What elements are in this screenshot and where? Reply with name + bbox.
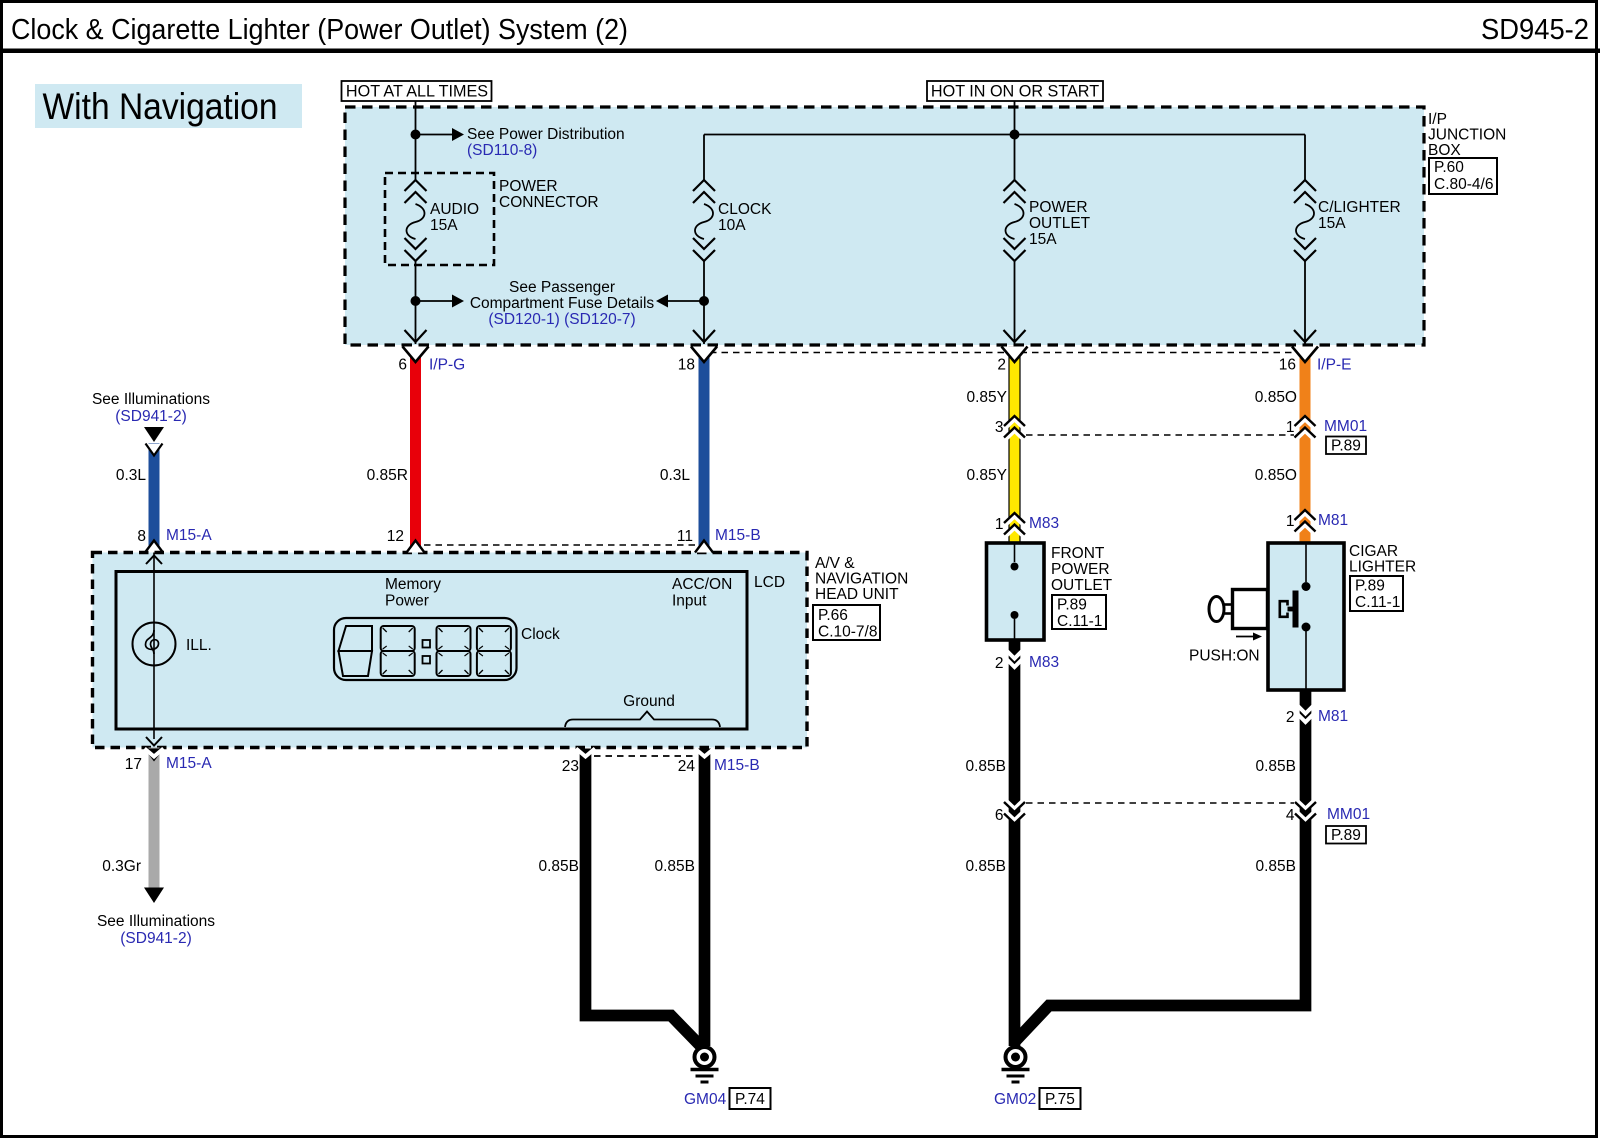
svg-text:3: 3	[995, 419, 1004, 436]
connector link dashes MM01 lower	[1026, 802, 1294, 804]
svg-text:P.66: P.66	[818, 607, 848, 624]
arrow: fuse details (right)	[416, 295, 465, 308]
svg-text:Input: Input	[672, 593, 707, 610]
label: ACC/ON Input	[672, 576, 732, 610]
svg-text:BOX: BOX	[1428, 142, 1461, 159]
svg-text:(SD941-2): (SD941-2)	[115, 408, 187, 425]
connector pin 18	[678, 330, 717, 374]
arrow: from illuminations	[144, 427, 164, 442]
label: 0.85B (cigar upper)	[1255, 758, 1296, 775]
connector pin 24 M15-B	[678, 749, 760, 776]
svg-text:0.85B: 0.85B	[965, 858, 1006, 875]
label: Ground (with brace)	[565, 693, 720, 727]
svg-text:ILL.: ILL.	[186, 637, 212, 654]
label: Clock	[521, 626, 560, 643]
page code SD945-2	[1481, 14, 1589, 46]
label: Memory Power	[385, 576, 441, 610]
connector pin 12 entry notch	[387, 528, 425, 553]
svg-text:Memory: Memory	[385, 576, 441, 593]
svg-text:11: 11	[677, 528, 693, 545]
wire: audio fuse output	[415, 261, 417, 344]
label: CIGAR LIGHTER	[1349, 543, 1416, 576]
svg-text:0.3L: 0.3L	[660, 467, 691, 484]
connector pin 6 (I/P-G)	[398, 330, 465, 374]
wire 0.3Gr (illumination out)	[149, 748, 160, 888]
svg-text:12: 12	[387, 528, 404, 545]
svg-text:HOT IN ON OR START: HOT IN ON OR START	[931, 83, 1099, 101]
wire: hot-in-on-or-start feed	[1014, 101, 1016, 135]
svg-text:0.85Y: 0.85Y	[966, 389, 1007, 406]
svg-text:4: 4	[1286, 807, 1295, 824]
svg-text:A/V &: A/V &	[815, 555, 855, 572]
component: FRONT POWER OUTLET	[987, 543, 1045, 640]
svg-text:1: 1	[1286, 419, 1295, 436]
svg-text:GM02: GM02	[994, 1091, 1036, 1108]
label: 0.85B (outlet upper)	[965, 758, 1006, 775]
svg-text:(SD120-1) (SD120-7): (SD120-1) (SD120-7)	[488, 311, 635, 328]
svg-text:AUDIO: AUDIO	[430, 201, 479, 218]
connector link dashes MM01 upper	[1026, 434, 1294, 436]
svg-text:0.85B: 0.85B	[654, 858, 695, 875]
svg-text:FRONT: FRONT	[1051, 545, 1105, 562]
connector link dashes pins 23-24	[594, 755, 696, 757]
svg-text:Clock: Clock	[521, 626, 560, 643]
wire: c-lighter fuse output	[1304, 261, 1306, 344]
ref box P.75	[1040, 1088, 1081, 1109]
label: With Navigation	[35, 84, 302, 128]
svg-text:18: 18	[678, 357, 695, 374]
svg-text:GM04: GM04	[684, 1091, 727, 1108]
ground GM02	[1002, 1047, 1030, 1082]
svg-text:C.80-4/6: C.80-4/6	[1434, 176, 1493, 193]
clock LCD display (88:88)	[334, 618, 517, 680]
cigar lighter plug symbol	[1209, 590, 1299, 629]
svg-text:M15-A: M15-A	[166, 755, 212, 772]
wire 0.85Y (power outlet)	[966, 347, 1020, 543]
I/P junction box (dashed blue box)	[345, 107, 1424, 345]
label: HOT IN ON OR START	[927, 81, 1103, 101]
label: 0.85B (pin 24 wire)	[654, 858, 695, 875]
component: CIGAR LIGHTER	[1268, 543, 1344, 690]
svg-text:M15-B: M15-B	[715, 527, 761, 544]
svg-text:POWER: POWER	[499, 178, 558, 195]
note: See Power Distribution (SD110-8)	[467, 126, 625, 159]
connector pin 2 M81	[1286, 704, 1348, 726]
svg-text:(SD941-2): (SD941-2)	[120, 930, 192, 947]
svg-text:P.60: P.60	[1434, 159, 1464, 176]
wire 0.3L (illumination to head unit)	[116, 443, 163, 553]
svg-text:P.75: P.75	[1045, 1091, 1075, 1108]
arrow: to illuminations	[144, 888, 164, 904]
wire: clock fuse feed	[703, 135, 705, 181]
svg-text:CONNECTOR: CONNECTOR	[499, 194, 599, 211]
svg-text:OUTLET: OUTLET	[1029, 215, 1091, 232]
node: audio feed junction	[411, 130, 421, 140]
svg-text:PUSH:ON: PUSH:ON	[1189, 648, 1260, 665]
svg-text:0.85Y: 0.85Y	[966, 467, 1007, 484]
svg-text:See Illuminations: See Illuminations	[97, 913, 215, 930]
node: fuse detail junction right	[699, 296, 709, 306]
svg-text:HOT AT ALL TIMES: HOT AT ALL TIMES	[346, 83, 488, 101]
wire 0.85B (cigar to GM02)	[1016, 690, 1306, 1041]
svg-text:0.85R: 0.85R	[367, 467, 408, 484]
wire 0.85B (pin 23 to GM04)	[586, 750, 705, 1050]
label: PUSH:ON	[1189, 648, 1260, 665]
svg-text:1: 1	[995, 516, 1004, 533]
title separator line	[0, 49, 1600, 54]
label: GM04	[684, 1091, 727, 1108]
svg-text:M15-A: M15-A	[166, 527, 212, 544]
wire: power outlet fuse output	[1014, 261, 1016, 344]
svg-text:P.89: P.89	[1355, 578, 1385, 595]
wire 0.85R (audio to head unit)	[367, 347, 421, 553]
wire 0.85O (cigar lighter)	[1255, 347, 1311, 543]
label: LCD	[754, 574, 785, 591]
svg-text:P.89: P.89	[1331, 827, 1361, 844]
svg-text:15A: 15A	[1318, 215, 1346, 232]
svg-text:P.89: P.89	[1331, 438, 1361, 455]
ref box P.89 (MM01 upper)	[1326, 437, 1366, 455]
svg-text:0.85O: 0.85O	[1255, 467, 1297, 484]
wire: power outlet fuse feed	[1014, 135, 1016, 181]
svg-text:CLOCK: CLOCK	[718, 201, 772, 218]
svg-text:MM01: MM01	[1327, 806, 1370, 823]
label: GM02	[994, 1091, 1036, 1108]
svg-text:M83: M83	[1029, 515, 1059, 532]
connector pin 16 (I/P-E)	[1279, 330, 1352, 374]
connector pin 1 M81	[1286, 510, 1348, 535]
diagram title	[11, 14, 628, 46]
in-line connector pin 6 (black)	[995, 799, 1025, 824]
label: 0.85B (outlet lower)	[965, 858, 1006, 875]
arrow: push direction	[1236, 633, 1262, 641]
wire 0.3L (clock to head unit)	[660, 347, 710, 553]
svg-text:See Power Distribution: See Power Distribution	[467, 126, 625, 143]
svg-text:24: 24	[678, 758, 696, 775]
svg-text:HEAD UNIT: HEAD UNIT	[815, 586, 899, 603]
svg-text:C.11-1: C.11-1	[1355, 594, 1400, 611]
svg-text:OUTLET: OUTLET	[1051, 577, 1113, 594]
svg-text:M81: M81	[1318, 512, 1348, 529]
wire: ignition bus	[704, 134, 1305, 136]
arrow: see power distribution	[416, 128, 465, 141]
ref box P.66 C.10-7/8	[813, 605, 880, 641]
svg-text:(SD110-8): (SD110-8)	[467, 142, 537, 159]
svg-text:NAVIGATION: NAVIGATION	[815, 571, 908, 588]
wire 0.85B (pin 24 to GM04)	[699, 750, 711, 1046]
svg-text:ACC/ON: ACC/ON	[672, 576, 732, 593]
svg-text:P.89: P.89	[1057, 597, 1087, 614]
ground GM04	[691, 1047, 719, 1082]
ref box P.89 (MM01 lower)	[1326, 826, 1366, 844]
svg-text:0.3L: 0.3L	[116, 467, 147, 484]
svg-text:0.85B: 0.85B	[1255, 758, 1296, 775]
label: FRONT POWER OUTLET	[1051, 545, 1113, 594]
in-line connector pin 4 MM01	[1286, 799, 1370, 824]
wire 0.85B (outlet to GM02)	[1009, 640, 1021, 1046]
connector pin 8 M15-A	[137, 527, 212, 553]
svg-text:10A: 10A	[718, 217, 746, 234]
bulb ILL.	[133, 553, 212, 746]
ref box P.60 C.80-4/6	[1429, 158, 1497, 194]
svg-text:0.85B: 0.85B	[1255, 858, 1296, 875]
svg-text:Power: Power	[385, 593, 429, 610]
fuse AUDIO 15A	[405, 180, 480, 261]
wire: hot-at-all-times feed	[415, 101, 417, 180]
wire: clock fuse output	[703, 261, 705, 344]
node: fuse detail junction left	[411, 296, 421, 306]
svg-text:I/P-E: I/P-E	[1317, 357, 1351, 374]
svg-text:C.11-1: C.11-1	[1057, 613, 1102, 630]
svg-text:CIGAR: CIGAR	[1349, 543, 1398, 560]
svg-text:I/P-G: I/P-G	[429, 357, 465, 374]
node: ignition bus junction	[1010, 130, 1020, 140]
svg-text:23: 23	[562, 758, 579, 775]
in-line connector pin 3 (yellow)	[995, 416, 1025, 441]
LCD module outline	[116, 572, 747, 730]
svg-text:2: 2	[1286, 709, 1295, 726]
svg-text:See Passenger: See Passenger	[509, 279, 615, 296]
ref box P.89 C.11-1 (outlet)	[1052, 595, 1106, 630]
svg-text:6: 6	[995, 807, 1004, 824]
connector pin 2 M83	[995, 649, 1059, 672]
svg-text:M81: M81	[1318, 708, 1348, 725]
connector pin 11 M15-B entry notch	[677, 527, 761, 553]
connector box: POWER CONNECTOR (dashed)	[385, 173, 599, 265]
svg-text:C/LIGHTER: C/LIGHTER	[1318, 199, 1401, 216]
fuse CLOCK 10A	[693, 180, 772, 261]
in-line connector pin 1 MM01	[1286, 416, 1367, 441]
label: 0.85B (pin 23 wire)	[538, 858, 579, 875]
svg-text:1: 1	[1286, 513, 1295, 530]
connector link dashes pins 12-11	[424, 544, 696, 546]
svg-text:2: 2	[997, 357, 1006, 374]
svg-text:I/P: I/P	[1428, 111, 1447, 128]
connector pin 1 M83	[995, 513, 1059, 538]
ref box P.74	[730, 1088, 771, 1109]
svg-text:JUNCTION: JUNCTION	[1428, 127, 1506, 144]
connector pin 2	[997, 330, 1027, 374]
svg-text:0.85B: 0.85B	[538, 858, 579, 875]
svg-text:See Illuminations: See Illuminations	[92, 391, 210, 408]
fuse POWER OUTLET 15A	[1004, 180, 1091, 261]
arrow: fuse details (left)	[656, 295, 704, 308]
svg-text:16: 16	[1279, 357, 1296, 374]
note: See Illuminations (SD941-2) upper	[92, 391, 210, 425]
label: I/P JUNCTION BOX	[1428, 111, 1506, 159]
ref box P.89 C.11-1 (cigar)	[1350, 576, 1403, 611]
label: HOT AT ALL TIMES	[342, 81, 492, 101]
connector link dashes pins 18-2-16 (I/P)	[710, 352, 1299, 354]
svg-text:With Navigation: With Navigation	[43, 86, 278, 127]
svg-text:0.85B: 0.85B	[965, 758, 1006, 775]
wire: c-lighter fuse feed	[1304, 135, 1306, 181]
svg-text:0.3Gr: 0.3Gr	[102, 858, 141, 875]
svg-text:8: 8	[137, 528, 146, 545]
svg-text:SD945-2: SD945-2	[1481, 14, 1589, 46]
svg-text:15A: 15A	[1029, 231, 1057, 248]
svg-text:P.74: P.74	[735, 1091, 765, 1108]
svg-text:15A: 15A	[430, 217, 458, 234]
svg-text:LCD: LCD	[754, 574, 785, 591]
label: A/V & NAVIGATION HEAD UNIT	[815, 555, 908, 603]
svg-text:MM01: MM01	[1324, 418, 1367, 435]
svg-text:Compartment Fuse Details: Compartment Fuse Details	[470, 295, 655, 312]
svg-text:17: 17	[125, 756, 142, 773]
label: 0.3Gr	[102, 858, 141, 875]
note: See Passenger Compartment Fuse Details	[470, 279, 655, 328]
svg-text:C.10-7/8: C.10-7/8	[818, 624, 877, 641]
label: 0.85B (cigar lower)	[1255, 858, 1296, 875]
component: A/V & NAVIGATION HEAD UNIT (dashed box)	[93, 553, 808, 748]
svg-text:0.85O: 0.85O	[1255, 389, 1297, 406]
svg-text:6: 6	[398, 357, 407, 374]
svg-text:2: 2	[995, 655, 1004, 672]
fuse C/LIGHTER 15A	[1294, 180, 1401, 261]
svg-text:POWER: POWER	[1029, 199, 1088, 216]
svg-text:Ground: Ground	[623, 693, 675, 710]
svg-text:LIGHTER: LIGHTER	[1349, 559, 1416, 576]
connector pin 17 M15-A	[125, 749, 213, 774]
svg-text:Clock & Cigarette Lighter (Pow: Clock & Cigarette Lighter (Power Outlet)…	[11, 14, 628, 46]
svg-text:M15-B: M15-B	[714, 757, 760, 774]
svg-text:POWER: POWER	[1051, 561, 1110, 578]
svg-text:M83: M83	[1029, 654, 1059, 671]
connector pin 23	[562, 749, 596, 776]
note: See Illuminations (SD941-2) lower	[97, 913, 215, 947]
